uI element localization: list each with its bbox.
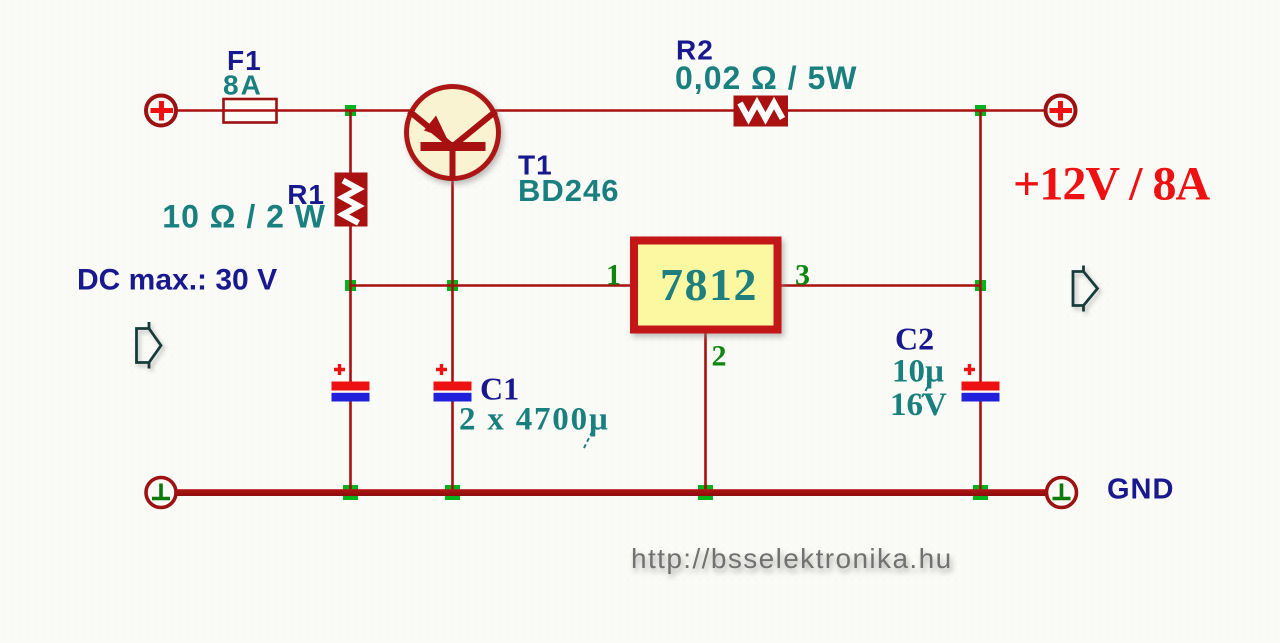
node: regulator output junction (green): [975, 280, 986, 291]
terminal: output positive: [1046, 96, 1076, 126]
wire: junction down to R1 top: [349, 111, 352, 174]
node: input junction at fuse/R1 (green): [345, 105, 356, 116]
capacitor C2 plus sign: [964, 364, 975, 375]
wire: 7812 pin 3 to output column: [781, 284, 981, 287]
node: output junction top right (green): [975, 105, 986, 116]
leader line C1: [584, 430, 593, 448]
wire: output column from top rail to mid: [979, 111, 982, 287]
node: ground junction C1b (green): [445, 485, 460, 500]
svg-text:7812: 7812: [660, 259, 758, 310]
svg-text:3: 3: [795, 259, 810, 292]
wire: mid rail down to capacitor C1b: [451, 286, 454, 383]
svg-text:DC max.: 30 V: DC max.: 30 V: [77, 264, 277, 297]
node: mid rail left junction (green): [345, 280, 356, 291]
wire: capacitor C1b to ground rail: [451, 401, 454, 492]
node: ground junction C1a (green): [343, 485, 358, 500]
svg-text:10µ: 10µ: [892, 354, 944, 390]
arrow marker left (input): [137, 322, 162, 369]
svg-text:16V: 16V: [890, 387, 947, 423]
resistor R1 body: [335, 173, 368, 227]
wire: 7812 pin 2 to ground rail: [704, 333, 707, 492]
terminal: input ground: [146, 478, 176, 508]
node: transistor base junction (green): [447, 280, 458, 291]
wire: top rail from input terminal to R2: [176, 109, 734, 112]
terminal: input positive: [146, 96, 176, 126]
svg-text:BD246: BD246: [518, 173, 620, 208]
fuse F1 body: [224, 99, 277, 123]
node: ground junction pin2 (green): [698, 485, 713, 500]
svg-text:GND: GND: [1107, 474, 1174, 506]
watermark url: [631, 543, 953, 574]
wire: output column mid to capacitor C2: [979, 286, 982, 383]
wire: ground rail: [176, 489, 1045, 496]
wire: mid rail to pin 1 of 7812: [349, 284, 632, 287]
svg-text:1: 1: [606, 259, 621, 292]
wire: transistor base down to mid rail: [451, 170, 454, 286]
wire: capacitor C1a to ground rail: [349, 401, 352, 492]
node: ground junction C2 (green): [973, 485, 988, 500]
svg-text:10 Ω / 2 W: 10 Ω / 2 W: [162, 199, 326, 235]
wire: R1 bottom to mid rail: [349, 226, 352, 286]
wire: mid rail down to capacitor C1a: [349, 286, 352, 383]
svg-text:0,02 Ω / 5W: 0,02 Ω / 5W: [675, 60, 858, 96]
op-amp/regulator U1 7812 body: [634, 241, 778, 330]
capacitor C1a plus sign: [334, 364, 345, 375]
svg-text:http://bsselektronika.hu: http://bsselektronika.hu: [631, 543, 953, 574]
resistor R2 body: [734, 96, 789, 127]
capacitor C1b plus sign: [436, 364, 447, 375]
capacitor C1b plates: [434, 382, 472, 391]
terminal: output ground: [1047, 478, 1077, 508]
svg-text:2: 2: [712, 340, 727, 373]
svg-text:2 x 4700µ: 2 x 4700µ: [459, 402, 610, 438]
capacitor C1a plates: [332, 382, 370, 391]
svg-text:+12V / 8A: +12V / 8A: [1013, 158, 1210, 211]
wire: top rail from R2 to output terminal: [788, 109, 1045, 112]
svg-text:8A: 8A: [223, 70, 263, 101]
svg-text:C2: C2: [895, 321, 934, 357]
capacitor C2 plates: [962, 382, 1000, 391]
wire: capacitor C2 to ground rail: [979, 401, 982, 492]
arrow marker right (output): [1073, 266, 1098, 312]
transistor T1 BD246 (PNP): [407, 87, 499, 179]
leader line C2: [922, 381, 931, 397]
